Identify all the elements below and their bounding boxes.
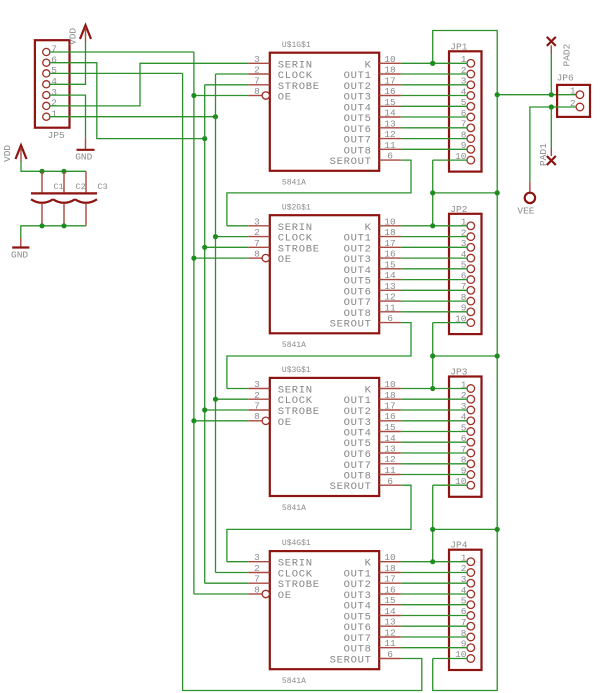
wire CLOCK3 feed [216, 398, 249, 400]
svg-text:13: 13 [384, 118, 396, 129]
svg-text:5841A: 5841A [282, 179, 306, 188]
svg-text:JP6: JP6 [557, 72, 574, 83]
svg-text:SEROUT: SEROUT [330, 156, 372, 168]
svg-text:18: 18 [384, 65, 396, 76]
junction C1 bottom [39, 223, 44, 228]
wire OE4 feed [194, 593, 248, 595]
svg-text:2: 2 [51, 98, 57, 109]
wire JP5 pin3 to GND [50, 95, 86, 138]
svg-text:12: 12 [384, 454, 396, 465]
svg-text:15: 15 [384, 97, 396, 108]
wire OUT2 row block1 [401, 84, 467, 86]
wire CLOCK4 feed [216, 572, 249, 574]
svg-text:8: 8 [254, 585, 260, 596]
wire serial chain SEROUT2 to SERIN3 [227, 323, 411, 389]
wire STROBE bus vertical [204, 85, 206, 583]
svg-text:JP4: JP4 [450, 540, 467, 551]
svg-text:10: 10 [384, 216, 396, 227]
svg-text:7: 7 [51, 44, 57, 55]
wire PAD2 to JP6 pin1 net [550, 54, 552, 95]
svg-text:6: 6 [387, 151, 393, 162]
svg-text:12: 12 [384, 292, 396, 303]
wire OUT4 row block3 [401, 431, 467, 433]
junction column/JP6 pin1 [495, 92, 500, 97]
junction rail top at JP1 pin1 [430, 61, 435, 66]
wire OUT8 row block2 [401, 311, 467, 313]
wire JP5 pin5 serial return [50, 72, 183, 74]
wire K4 row to JP4 pin1 [401, 561, 467, 563]
wire VEE to JP6 pin2 [530, 107, 576, 182]
wire OUT6 row block4 [401, 625, 467, 627]
svg-text:5841A: 5841A [282, 341, 306, 350]
svg-text:6: 6 [387, 476, 393, 487]
wire CLOCK2 feed [216, 236, 249, 238]
wire caps bottom rail [21, 226, 86, 239]
wire OUT7 row block1 [401, 138, 467, 140]
wire JP5 pin4 to VDD [50, 41, 86, 84]
junction C2 top [61, 169, 66, 174]
wire OUT1 row block3 [401, 398, 467, 400]
wire STROBE4 feed [205, 582, 249, 584]
svg-text:7: 7 [254, 238, 260, 249]
connector JP1 [449, 41, 482, 171]
wire OUT7 row block2 [401, 300, 467, 302]
svg-text:VEE: VEE [517, 206, 534, 217]
wire JP5 pin1 to CLOCK bus [50, 116, 216, 118]
svg-text:VDD: VDD [2, 145, 13, 162]
wire JP2 pin10 row [433, 322, 467, 324]
wire OE1 feed [194, 95, 248, 97]
svg-text:SEROUT: SEROUT [330, 655, 372, 667]
junction pin1/CLOCK bus [213, 114, 218, 119]
wire OE3 feed [194, 420, 248, 422]
svg-text:JP2: JP2 [450, 204, 467, 215]
wire rail segment 2 [432, 323, 434, 356]
wire rail segment 3 [432, 485, 434, 529]
svg-text:C2: C2 [76, 182, 86, 192]
wire JP6 pin2 to PAD1 [550, 107, 552, 148]
svg-text:17: 17 [384, 75, 395, 86]
svg-text:1: 1 [51, 108, 57, 119]
wire OUT4 row block2 [401, 268, 467, 270]
wire OUT3 row block3 [401, 420, 467, 422]
wire serial chain SEROUT3 to SERIN4 [227, 485, 411, 562]
connector JP3 [449, 367, 482, 497]
svg-text:OE: OE [278, 254, 292, 266]
svg-text:2: 2 [254, 227, 260, 238]
svg-text:2: 2 [254, 390, 260, 401]
IC U$1G$1 (5841A driver) [248, 41, 400, 188]
wire JP5 pin2 to SERIN1 [50, 63, 248, 106]
wire OUT4 row block1 [401, 105, 467, 107]
svg-text:14: 14 [384, 606, 396, 617]
svg-text:U$3G$1: U$3G$1 [282, 366, 311, 375]
wire OUT6 row block1 [401, 127, 467, 129]
svg-text:3: 3 [254, 216, 260, 227]
wire OUT6 row block3 [401, 452, 467, 454]
svg-text:10: 10 [384, 54, 396, 65]
svg-text:12: 12 [384, 628, 396, 639]
wire OUT3 row block1 [401, 95, 467, 97]
wire serial return (JP5 pin5 to SEROUT4) [183, 73, 422, 690]
wire SERIN2 feed [227, 225, 248, 227]
svg-text:VDD: VDD [68, 28, 79, 45]
svg-text:3: 3 [254, 379, 260, 390]
svg-text:3: 3 [254, 54, 260, 65]
svg-text:OE: OE [278, 92, 292, 104]
svg-text:15: 15 [384, 422, 396, 433]
capacitor C1 [31, 171, 64, 226]
wire OUT3 row block4 [401, 593, 467, 595]
supply symbol VDD (left, caps) [2, 145, 26, 162]
wire OUT5 row block4 [401, 615, 467, 617]
svg-text:7: 7 [254, 75, 260, 86]
svg-text:12: 12 [384, 129, 396, 140]
wire STROBE3 feed [205, 409, 249, 411]
svg-text:11: 11 [384, 465, 396, 476]
wire OE bus vertical [193, 52, 195, 594]
wire OUT8 row block3 [401, 474, 467, 476]
wire OUT2 row block3 [401, 409, 467, 411]
svg-text:U$1G$1: U$1G$1 [282, 41, 311, 50]
supply symbol VEE [517, 182, 535, 217]
wire CLOCK bus vertical [215, 74, 217, 572]
junction C2 bottom [61, 223, 66, 228]
svg-text:16: 16 [384, 86, 396, 97]
wire K3 row to JP3 pin1 [401, 388, 467, 390]
svg-text:16: 16 [384, 249, 396, 260]
svg-text:8: 8 [254, 249, 260, 260]
wire SERIN3 feed [227, 388, 248, 390]
svg-text:7: 7 [254, 401, 260, 412]
connector JP6 [557, 72, 590, 117]
pad PAD2 [547, 37, 573, 67]
svg-text:PAD2: PAD2 [561, 43, 572, 66]
wire JP4 pin10 row [433, 658, 467, 660]
wire K2 row to JP2 pin1 [401, 225, 467, 227]
wire OUT2 row block2 [401, 246, 467, 248]
svg-text:JP3: JP3 [450, 367, 467, 378]
svg-text:4: 4 [51, 76, 57, 87]
ground symbol GND (below caps) [11, 238, 29, 261]
supply symbol VDD (top) [68, 25, 92, 45]
svg-text:15: 15 [384, 595, 396, 606]
wire serial chain SEROUT1 to SERIN2 [227, 160, 411, 226]
connector JP4 [449, 540, 482, 670]
svg-text:14: 14 [384, 270, 396, 281]
IC U$4G$1 (5841A driver) [248, 539, 400, 686]
svg-text:1: 1 [570, 86, 576, 97]
junction pin6/STROBE bus [202, 136, 207, 141]
svg-text:SEROUT: SEROUT [330, 481, 372, 493]
wire OUT2 row block4 [401, 582, 467, 584]
wire STROBE1 feed [205, 84, 249, 86]
OE inversion bubble U$3 [262, 417, 269, 424]
OE inversion bubble U$2 [262, 254, 269, 261]
wire OUT7 row block3 [401, 463, 467, 465]
wire CLOCK1 feed [216, 73, 249, 75]
svg-text:8: 8 [254, 86, 260, 97]
svg-text:13: 13 [384, 617, 396, 628]
svg-text:11: 11 [384, 140, 396, 151]
svg-text:13: 13 [384, 444, 396, 455]
svg-text:15: 15 [384, 259, 396, 270]
svg-text:6: 6 [387, 649, 393, 660]
svg-text:SEROUT: SEROUT [330, 319, 372, 331]
svg-text:2: 2 [254, 65, 260, 76]
wire JP5 pin7 to OE bus [50, 51, 194, 53]
wire caps top rail [21, 161, 86, 171]
wire OUT6 row block2 [401, 289, 467, 291]
svg-text:2: 2 [254, 563, 260, 574]
IC U$3G$1 (5841A driver) [248, 366, 400, 513]
wire OUT8 row block4 [401, 647, 467, 649]
capacitor C2 [53, 171, 86, 226]
svg-text:18: 18 [384, 563, 396, 574]
wire JP5 pin6 to STROBE bus [50, 63, 205, 139]
svg-text:17: 17 [384, 238, 395, 249]
junction OE bus at OE1 [191, 93, 196, 98]
svg-text:17: 17 [384, 401, 395, 412]
svg-text:GND: GND [75, 152, 92, 163]
wire OUT1 row block2 [401, 236, 467, 238]
wire OUT4 row block4 [401, 604, 467, 606]
IC U$2G$1 (5841A driver) [248, 203, 400, 350]
OE inversion bubble U$1 [262, 92, 269, 99]
svg-text:C1: C1 [54, 182, 64, 192]
svg-text:U$4G$1: U$4G$1 [282, 539, 311, 548]
wire OUT3 row block2 [401, 257, 467, 259]
wire rail segment 1 [432, 160, 434, 193]
svg-text:17: 17 [384, 574, 395, 585]
wire OUT1 row block1 [401, 73, 467, 75]
OE inversion bubble U$4 [262, 590, 269, 597]
svg-text:3: 3 [51, 87, 57, 98]
svg-text:PAD1: PAD1 [538, 143, 549, 166]
svg-text:14: 14 [384, 433, 396, 444]
wire JP1 pin10 row [433, 159, 467, 161]
wire OUT7 row block4 [401, 636, 467, 638]
wire VDD rail column [433, 31, 498, 691]
wire JP6 pin1 feed [497, 94, 576, 96]
wire STROBE2 feed [205, 246, 249, 248]
wire OUT1 row block4 [401, 572, 467, 574]
svg-text:11: 11 [384, 302, 396, 313]
svg-text:16: 16 [384, 411, 396, 422]
wire K1 row to JP1 pin1 [401, 62, 467, 64]
svg-text:6: 6 [51, 54, 57, 65]
svg-text:JP1: JP1 [450, 41, 467, 52]
svg-text:OE: OE [278, 417, 292, 429]
wire OUT5 row block2 [401, 279, 467, 281]
wire OUT8 row block1 [401, 148, 467, 150]
svg-text:18: 18 [384, 227, 396, 238]
ground symbol GND (near JP5) [75, 138, 94, 163]
svg-text:10: 10 [384, 552, 396, 563]
svg-text:14: 14 [384, 108, 396, 119]
svg-text:18: 18 [384, 390, 396, 401]
svg-text:U$2G$1: U$2G$1 [282, 203, 311, 212]
wire SERIN4 feed [227, 561, 248, 563]
pad PAD1 [538, 143, 556, 166]
svg-text:11: 11 [384, 638, 396, 649]
wire JP3 pin10 row [433, 484, 467, 486]
svg-text:6: 6 [387, 313, 393, 324]
svg-text:7: 7 [254, 574, 260, 585]
connector JP2 [449, 204, 482, 334]
wire OUT5 row block3 [401, 441, 467, 443]
wire OUT5 row block1 [401, 116, 467, 118]
svg-text:16: 16 [384, 585, 396, 596]
svg-text:C3: C3 [98, 182, 108, 192]
svg-text:GND: GND [11, 250, 28, 261]
svg-text:5841A: 5841A [282, 677, 306, 686]
svg-text:5841A: 5841A [282, 504, 306, 513]
wire OE2 feed [194, 257, 248, 259]
junction PAD1 junction [549, 104, 554, 109]
svg-text:JP5: JP5 [48, 130, 65, 141]
capacitor C3 [75, 171, 108, 226]
svg-text:10: 10 [384, 379, 396, 390]
svg-text:3: 3 [254, 552, 260, 563]
connector JP5 [35, 40, 70, 141]
junction C1 top [39, 169, 44, 174]
svg-text:13: 13 [384, 281, 396, 292]
junction PAD2 junction [549, 92, 554, 97]
svg-text:8: 8 [254, 411, 260, 422]
svg-text:5: 5 [51, 65, 57, 76]
svg-text:OE: OE [278, 590, 292, 602]
